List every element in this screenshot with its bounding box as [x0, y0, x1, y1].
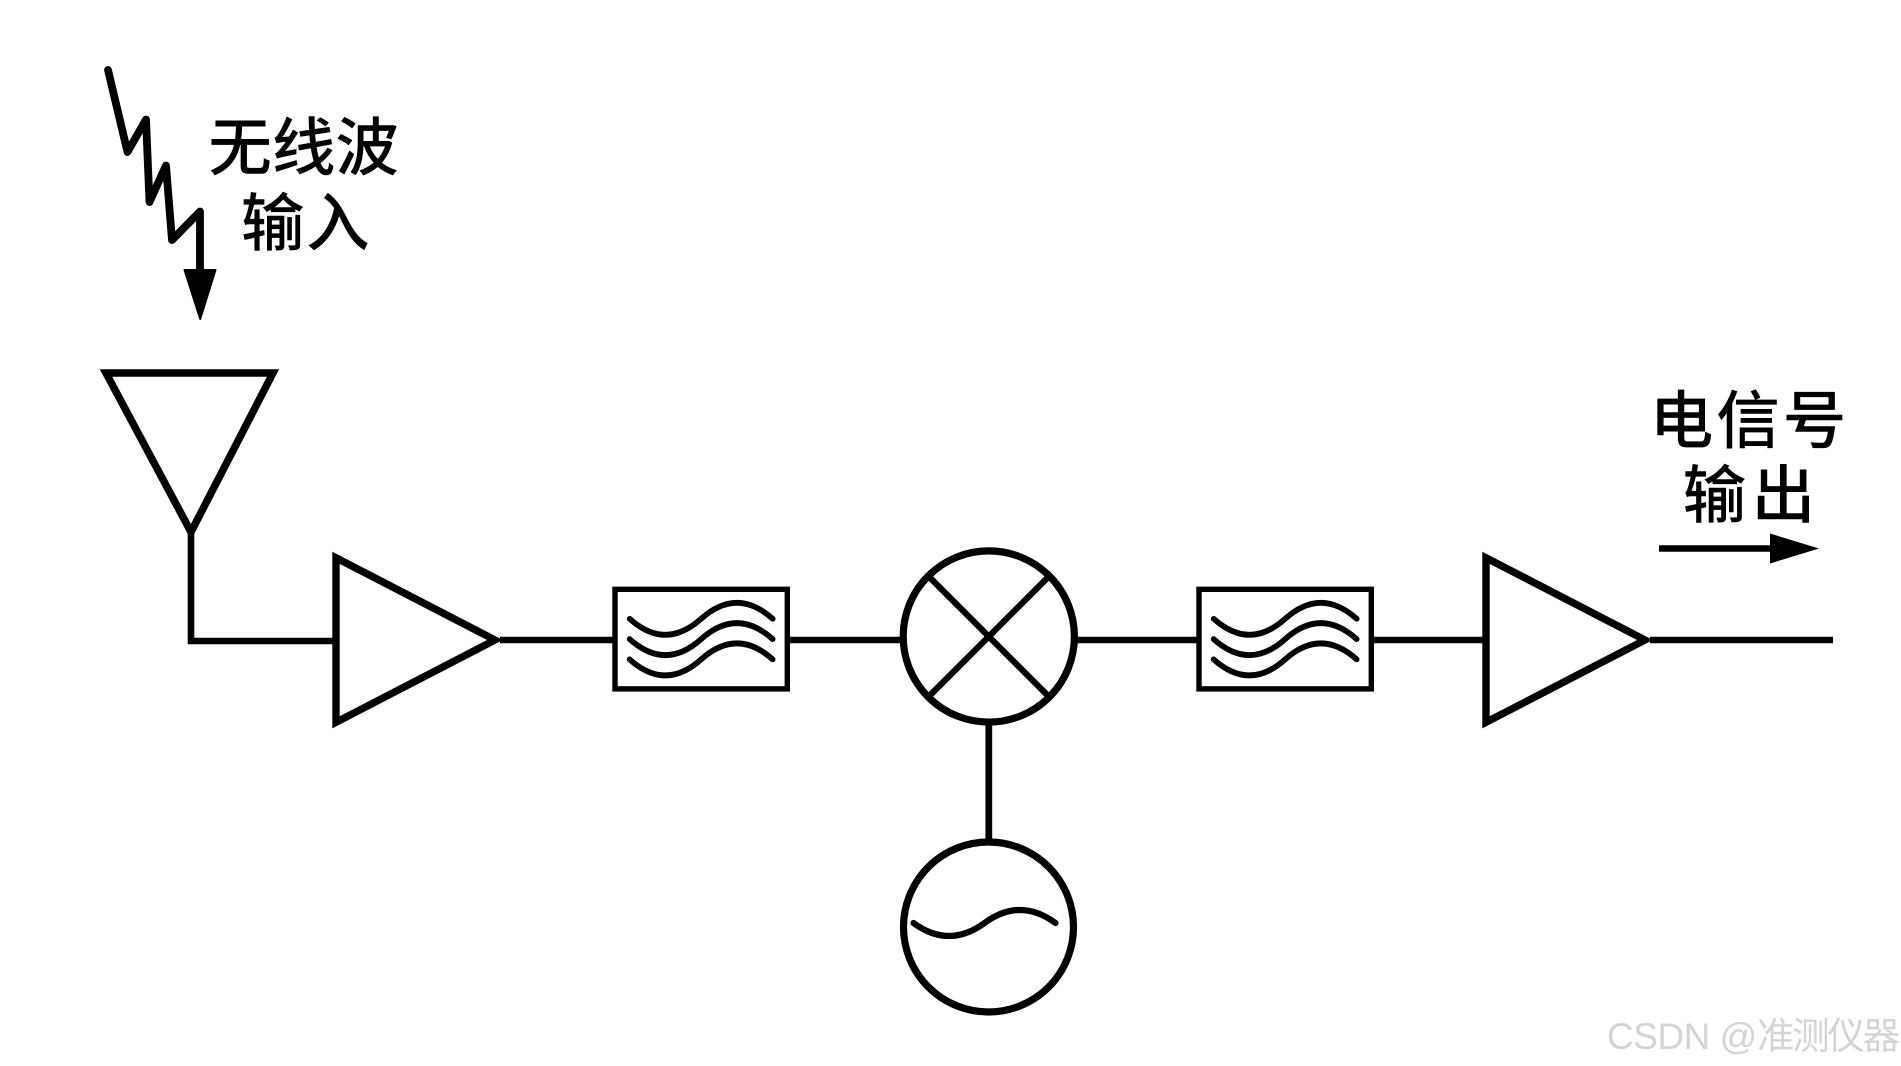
wire: A1 to filter FL1	[500, 637, 616, 644]
amplifier A1 (LNA)	[336, 558, 495, 723]
wire: U1 to filter FL2	[1072, 637, 1200, 644]
wire: FL1 to mixer U1	[789, 637, 905, 644]
wire: A2 to output	[1650, 637, 1833, 644]
wire: U1 LO port to local oscillator	[985, 722, 992, 845]
amplifier A2	[1486, 558, 1645, 723]
label "无线波 / 输入" (wireless wave input)	[211, 116, 397, 250]
local oscillator LO (signal generator)	[904, 842, 1074, 1012]
svg-text:CSDN @: CSDN @	[1607, 1016, 1757, 1057]
mixer U1	[903, 551, 1074, 722]
wire: antenna stem to amplifier A1 input	[191, 529, 338, 641]
antenna ANT1	[106, 373, 273, 532]
output arrow	[1659, 534, 1819, 564]
wire: FL2 to amplifier A2	[1373, 637, 1488, 644]
label "电信号 / 输出" (electrical signal output)	[1657, 389, 1842, 522]
filter FL2 (band-pass)	[1199, 589, 1371, 689]
watermark: CSDN @准测仪器	[1607, 1016, 1899, 1057]
lightning arrow (wireless wave input)	[108, 70, 216, 319]
filter FL1 (band-pass)	[615, 589, 787, 689]
